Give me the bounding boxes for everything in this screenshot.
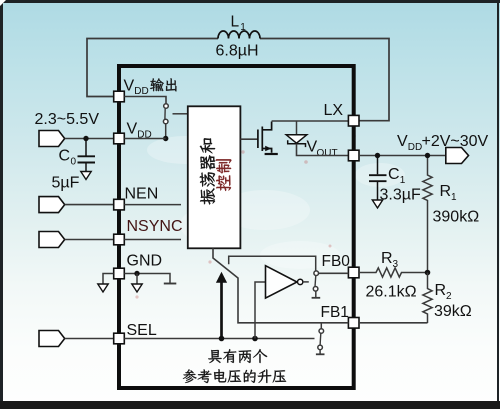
- frame right border: [497, 0, 500, 404]
- switch FB0 arm: [314, 276, 317, 287]
- wire FB0 internal net: [229, 256, 316, 271]
- switch FB0 contact b: [313, 287, 318, 292]
- resistor R3: [359, 268, 428, 277]
- output terminal VDD +2V~30V: [446, 148, 469, 164]
- svg-text:6.8µH: 6.8µH: [216, 43, 259, 60]
- input terminal NSYNC: [39, 232, 65, 248]
- node R1-R2-R3 junction: [425, 270, 431, 276]
- pin FB1: [348, 318, 359, 329]
- node C1 junction: [375, 153, 380, 158]
- switch S1 arm: [164, 108, 166, 119]
- wire oscillator to MOSFET gate: [240, 138, 258, 140]
- watermark haze: [147, 136, 405, 269]
- select arrow (SEL to reference switch): [220, 282, 223, 339]
- node SEL-arrow junction: [219, 336, 225, 342]
- pin VOUT: [348, 150, 359, 161]
- capacitor C1: [369, 158, 387, 200]
- wire NEN: [65, 204, 114, 206]
- svg-text:R: R: [381, 250, 393, 267]
- caption line 1 (has two): [208, 350, 222, 363]
- input terminal NEN: [39, 197, 65, 213]
- wire FB0 switch to pin: [319, 272, 349, 274]
- wire switch S1 to VDD net: [165, 124, 167, 139]
- svg-text:NEN: NEN: [125, 186, 159, 203]
- wire top loop (VDD to LX via L1): [87, 39, 389, 121]
- node input junction: [83, 136, 88, 141]
- corner notch: [0, 0, 6, 6]
- frame left border: [0, 0, 3, 404]
- pin SEL: [114, 333, 125, 344]
- switch FB0 end bar: [312, 297, 321, 299]
- svg-text:39kΩ: 39kΩ: [434, 303, 472, 320]
- switch S1 contact a: [164, 104, 169, 109]
- svg-text:V: V: [397, 133, 408, 150]
- svg-text:1: 1: [400, 175, 406, 186]
- wire diode to VOUT pin: [297, 144, 349, 156]
- wire FB1 to R2: [359, 322, 428, 324]
- svg-text:V: V: [127, 121, 138, 138]
- wire SEL to inverter input: [255, 282, 265, 339]
- svg-text:C: C: [59, 148, 71, 165]
- svg-text:LX: LX: [324, 102, 344, 119]
- svg-text:OUT: OUT: [317, 148, 338, 159]
- node SEL-inverter junction: [252, 336, 258, 342]
- svg-text:R: R: [440, 183, 452, 200]
- svg-text:SEL: SEL: [127, 322, 157, 339]
- svg-text:2.3~5.5V: 2.3~5.5V: [35, 111, 100, 128]
- svg-text:L: L: [231, 14, 240, 31]
- switch FB1 contact a: [319, 329, 324, 334]
- wire VDD-output pin to switch S1: [124, 97, 166, 104]
- switch FB1 end bar: [316, 353, 325, 355]
- IC U1 body outline: [119, 66, 354, 388]
- wire SEL internal: [124, 338, 314, 340]
- wire NSYNC internal: [124, 239, 181, 241]
- frame top border: [0, 0, 500, 3]
- node GND junction: [134, 271, 139, 276]
- switch FB1 stub top: [320, 324, 322, 329]
- svg-text:FB1: FB1: [321, 304, 349, 321]
- pin NEN: [114, 199, 125, 210]
- caption line 2 (reference-voltage boost): [183, 369, 197, 383]
- pin VDD-output: [114, 91, 125, 102]
- frame bottom band: [0, 401, 500, 409]
- wire GND center stub: [136, 274, 138, 284]
- switch S1 contact b: [163, 119, 168, 124]
- resistor R1: [423, 158, 432, 273]
- svg-text:V: V: [124, 78, 135, 95]
- input terminal 2.3~5.5V: [39, 131, 65, 147]
- svg-text:5µF: 5µF: [52, 175, 80, 192]
- pin FB0: [348, 267, 359, 278]
- wire GND right: [124, 274, 170, 284]
- pin VDD: [114, 133, 125, 144]
- resistor R2: [423, 273, 432, 324]
- pin NSYNC: [114, 234, 125, 245]
- reference selector arm: [213, 248, 348, 322]
- svg-text:0: 0: [71, 157, 77, 168]
- wire GND left: [103, 274, 114, 284]
- ground under C0: [81, 172, 91, 180]
- ground symbol center: [132, 284, 142, 292]
- wire VDD pin to switch junction: [124, 138, 165, 140]
- MOSFET Q1: [258, 122, 272, 153]
- wire switch S1 to oscillator block: [173, 113, 188, 115]
- svg-text:+2V~30V: +2V~30V: [422, 133, 489, 150]
- switch FB1 contact b: [318, 345, 323, 350]
- wire VOUT to output terminal: [359, 155, 446, 157]
- switch FB0 stub: [315, 291, 317, 297]
- wire MOSFET drain to LX: [272, 120, 349, 122]
- wire NSYNC: [65, 239, 114, 241]
- diode D1 (Schottky): [286, 135, 307, 143]
- switch FB1 arm: [319, 333, 322, 345]
- pin GND: [114, 268, 125, 279]
- capacitor C0: [78, 141, 96, 172]
- svg-text:DD: DD: [134, 86, 148, 97]
- svg-text:R: R: [435, 282, 447, 299]
- svg-text:NSYNC: NSYNC: [127, 218, 183, 235]
- node R1 junction: [425, 153, 430, 158]
- svg-text:C: C: [388, 166, 400, 183]
- oscillator block text (oscillator and): [200, 138, 215, 204]
- wire SEL: [65, 338, 114, 340]
- node switch S1 on VDD wire: [163, 136, 168, 141]
- inverter gate: [266, 266, 298, 298]
- oscillator block text (control): [216, 159, 232, 191]
- wire NEN internal: [124, 204, 181, 206]
- svg-text:FB0: FB0: [322, 253, 351, 270]
- ground symbol right bar: [164, 283, 177, 285]
- wire input to VDD pin: [65, 138, 114, 140]
- svg-text:3: 3: [393, 259, 399, 270]
- input terminal SEL: [39, 331, 65, 347]
- svg-text:390kΩ: 390kΩ: [433, 209, 480, 226]
- ground under C1: [372, 200, 382, 208]
- pin LX: [348, 115, 359, 126]
- svg-text:GND: GND: [127, 253, 163, 270]
- ground symbol left: [98, 284, 108, 292]
- inductor L1: [218, 31, 260, 38]
- svg-text:26.1kΩ: 26.1kΩ: [366, 284, 417, 301]
- oscillator-control block: [188, 106, 241, 248]
- svg-text:2: 2: [446, 291, 452, 302]
- svg-text:1: 1: [240, 22, 246, 33]
- switch FB0 contact a: [314, 271, 319, 276]
- wire LX node to diode: [296, 121, 298, 135]
- svg-text:DD: DD: [408, 142, 422, 153]
- svg-text:1: 1: [451, 192, 457, 203]
- ground bar MOSFET source: [265, 153, 278, 155]
- switch FB1 stub bottom: [319, 350, 321, 354]
- svg-text:3.3µF: 3.3µF: [380, 187, 421, 204]
